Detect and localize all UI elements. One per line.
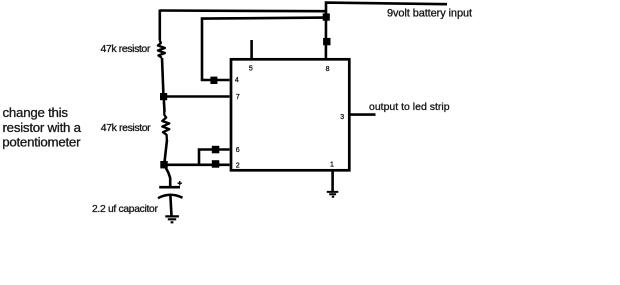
svg-text:resistor with a: resistor with a — [3, 120, 82, 135]
wire capacitor to ground — [170, 196, 171, 217]
svg-text:7: 7 — [236, 94, 240, 101]
wire to pin 6 (branch) — [199, 150, 230, 165]
IC U1 555 timer body — [231, 59, 349, 170]
junction VCC node (square) — [323, 13, 330, 20]
svg-text:5: 5 — [249, 65, 253, 72]
capacitor C1 2.2uF top plate — [159, 186, 180, 189]
junction pin 8 node (square) — [323, 38, 330, 45]
resistor R1 47k (zigzag) — [158, 41, 165, 58]
junction pin 2 node (square) — [160, 161, 167, 168]
svg-text:8: 8 — [326, 66, 330, 73]
junction pin 7 node (square) — [160, 93, 167, 100]
pin 5 stub — [250, 40, 253, 60]
wire R1 bottom lead to pin7 node — [162, 58, 164, 97]
capacitor C1 polarity plus sign — [178, 181, 182, 185]
junction square on pin 2 wire — [212, 160, 220, 168]
resistor R2 47k (zigzag) — [162, 112, 169, 141]
wire to pin 2 — [164, 164, 230, 167]
junction square on pin 6 wire — [212, 146, 220, 154]
wire R2 bottom lead to pin2 node — [164, 140, 167, 165]
wire R2 top lead — [162, 97, 165, 113]
svg-text:2: 2 — [236, 163, 240, 170]
svg-text:4: 4 — [235, 77, 239, 84]
pin 1 stub — [331, 171, 334, 192]
wire second rail (pin 4 branch to VCC node) — [202, 18, 324, 80]
pin 3 output stub — [349, 113, 376, 116]
svg-text:47k resistor: 47k resistor — [101, 43, 151, 55]
wire top rail (R1 top to VCC node) — [160, 9, 327, 12]
svg-text:change this: change this — [3, 105, 69, 120]
wire R1 top lead — [159, 10, 162, 41]
capacitor C1 curved bottom plate — [158, 195, 183, 198]
svg-text:2.2 uf capacitor: 2.2 uf capacitor — [92, 204, 158, 215]
wire 9volt battery input rail — [326, 3, 447, 59]
ground symbol (pin 1) — [327, 192, 339, 197]
wire pin2 node down to capacitor — [164, 165, 170, 188]
svg-text:9volt battery input: 9volt battery input — [387, 8, 472, 20]
svg-text:6: 6 — [236, 147, 240, 154]
svg-text:potentiometer: potentiometer — [2, 134, 81, 149]
wire to pin 7 — [164, 95, 230, 98]
svg-text:1: 1 — [330, 161, 334, 168]
svg-text:47k resistor: 47k resistor — [101, 122, 151, 134]
svg-text:3: 3 — [340, 114, 344, 121]
junction square on pin 4 wire — [210, 77, 217, 84]
ground symbol (capacitor) — [165, 216, 179, 222]
svg-text:output to led strip: output to led strip — [369, 101, 450, 113]
